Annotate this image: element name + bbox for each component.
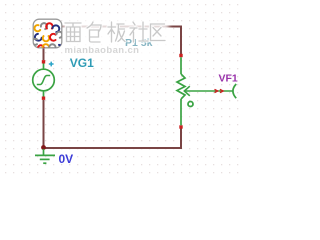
logo box [33, 19, 62, 48]
logo arcs [32, 23, 62, 52]
svg-text:VG1: VG1 [70, 56, 94, 70]
watermark text mianbaoban [65, 23, 81, 42]
terminal VG1 top [42, 60, 45, 63]
svg-text:mianbaoban.cn: mianbaoban.cn [65, 45, 140, 56]
ground [35, 149, 55, 163]
grid dots [0, 0, 240, 178]
wire: top net from VG1 plus to P1 top [44, 27, 182, 61]
svg-text:VF1: VF1 [219, 73, 238, 85]
watermark halo band [62, 19, 169, 56]
node junction at ground [41, 145, 46, 150]
potentiometer P1 [177, 57, 236, 125]
plus sign of VG1 [49, 62, 54, 67]
voltage generator VG1 [33, 64, 55, 97]
VF1 red probe arrows [215, 89, 224, 92]
wire: bottom net VG1 minus to ground to P1 bottom [44, 100, 182, 148]
terminal VG1 bottom [42, 97, 45, 100]
terminal P1 top [179, 54, 182, 57]
svg-text:0V: 0V [59, 152, 74, 166]
terminal P1 bottom [179, 125, 182, 128]
